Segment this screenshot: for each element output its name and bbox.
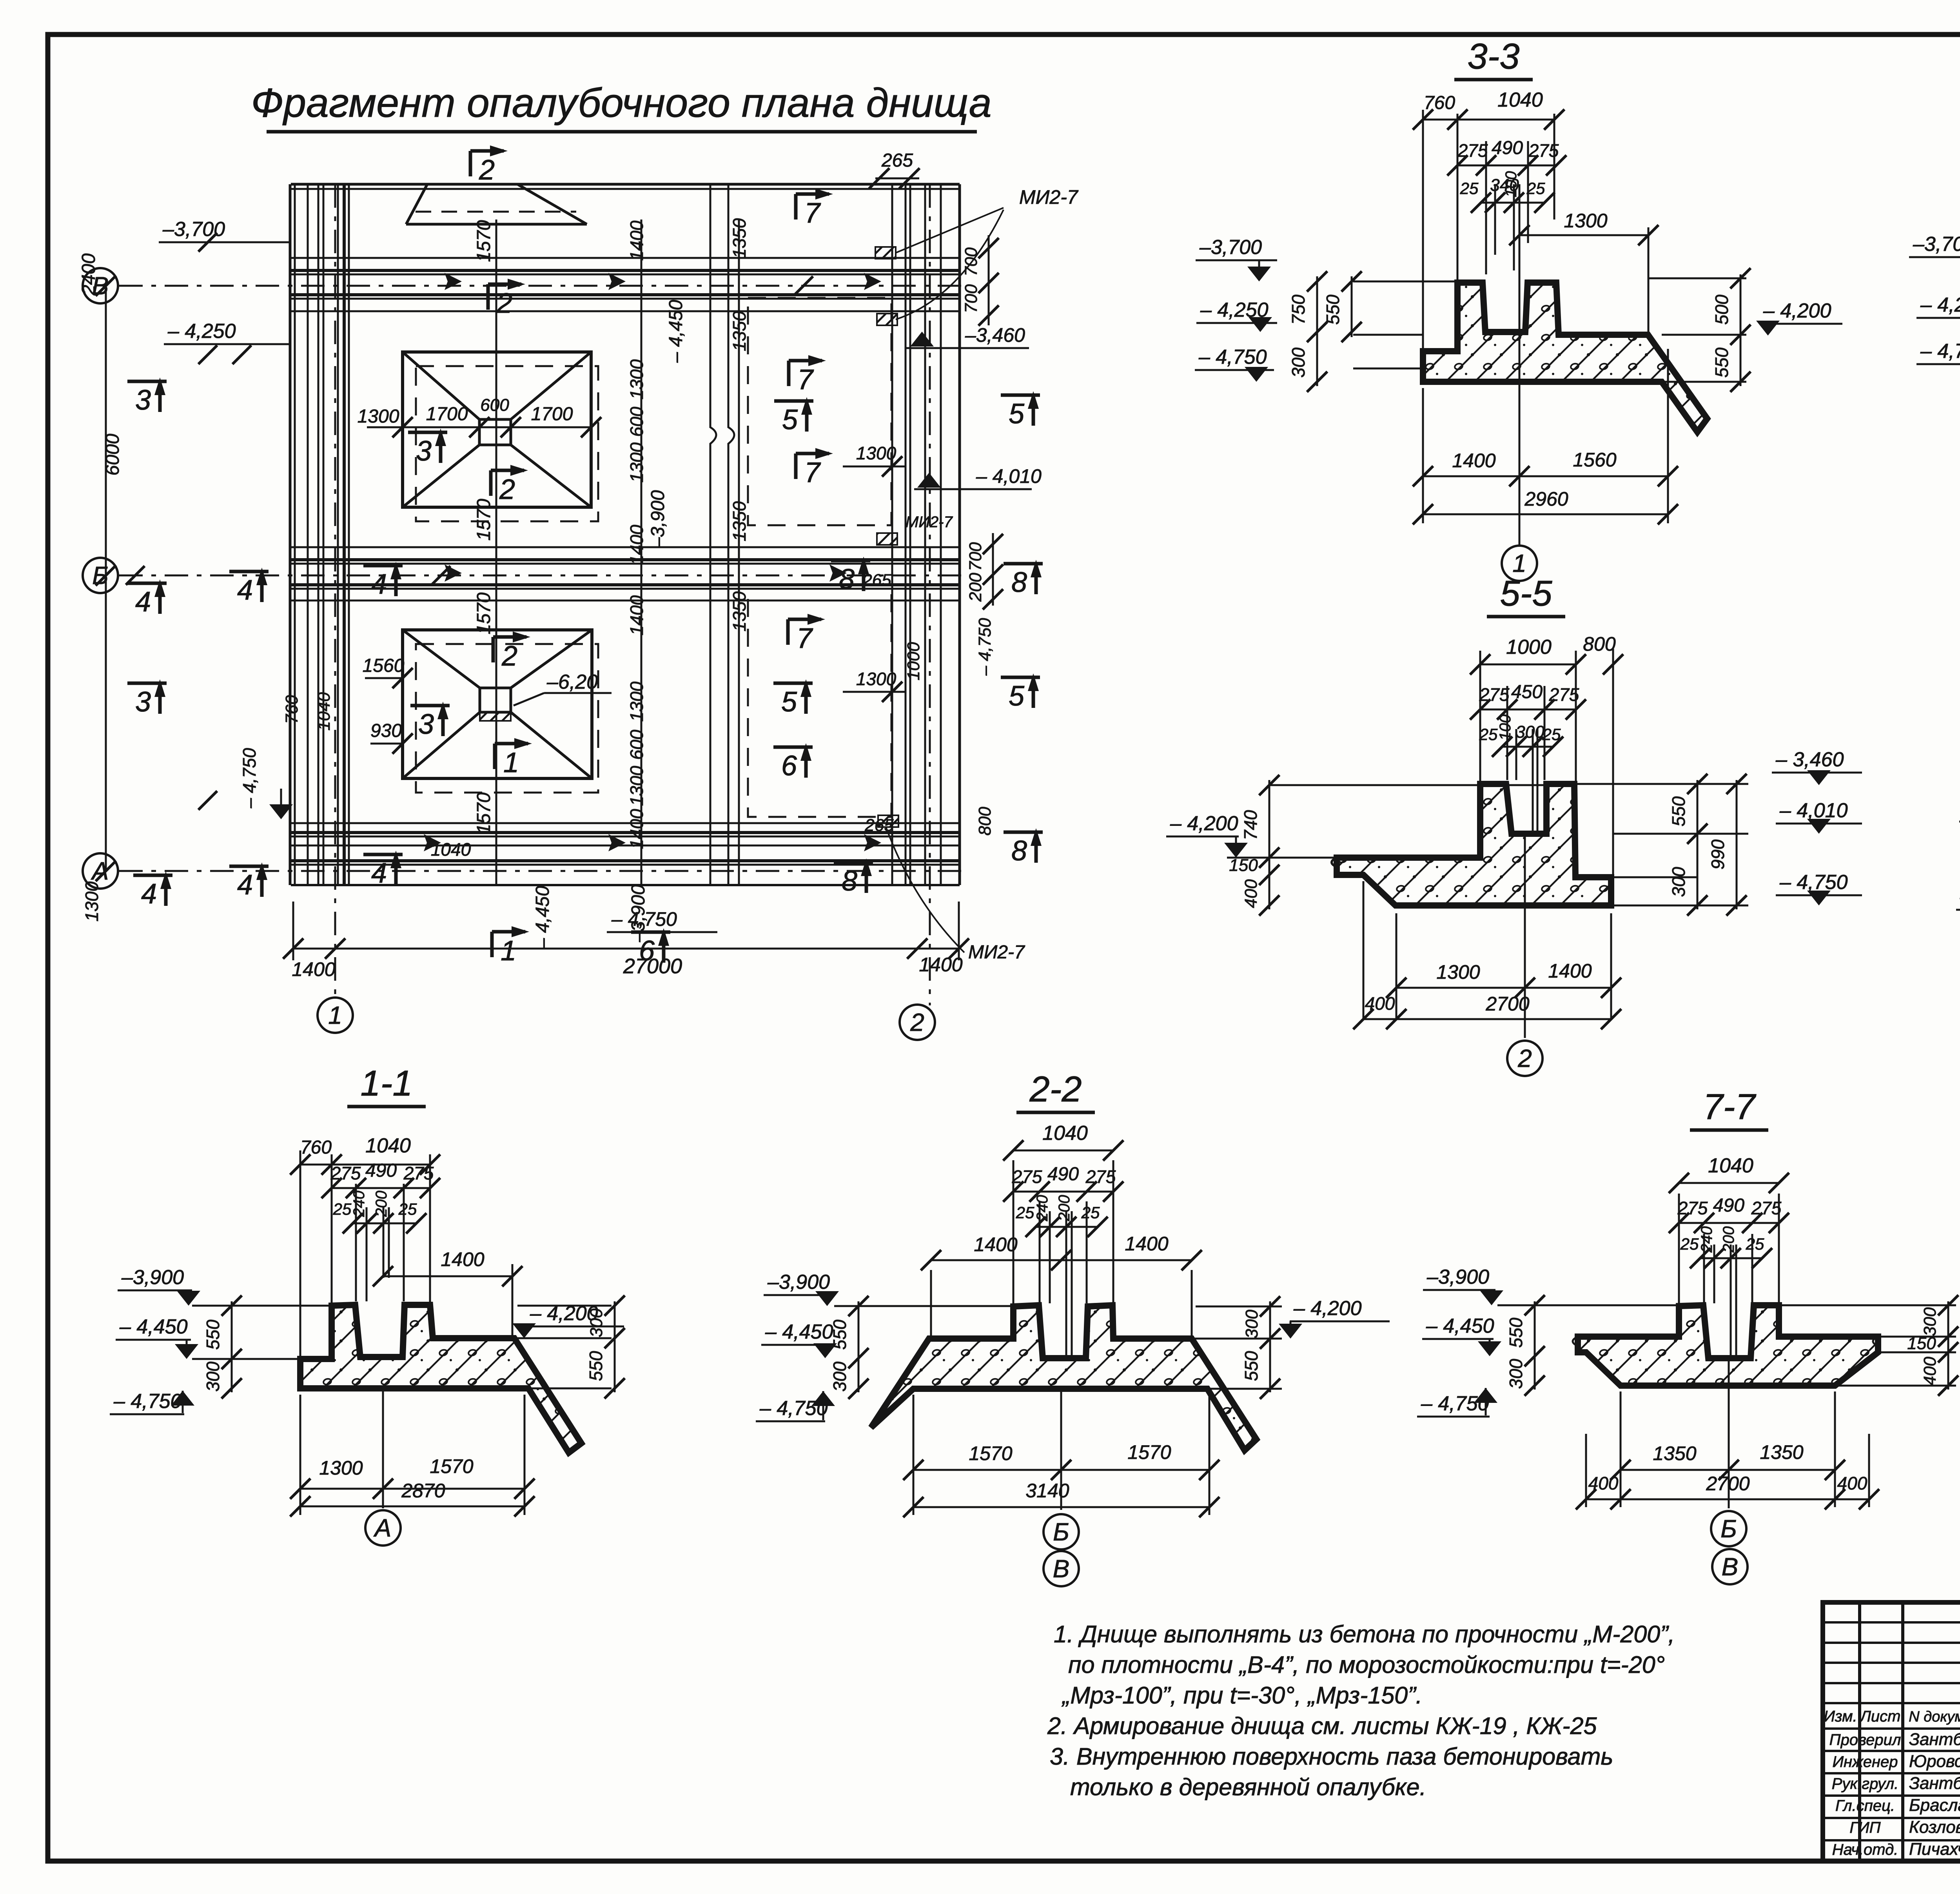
svg-text:–6,20: –6,20 xyxy=(546,671,598,693)
svg-text:1560: 1560 xyxy=(363,655,405,676)
svg-text:Пичахчи: Пичахчи xyxy=(1909,1840,1960,1859)
svg-text:– 4,250: – 4,250 xyxy=(167,320,236,343)
svg-text:– 4,200: – 4,200 xyxy=(1170,812,1238,835)
svg-text:5: 5 xyxy=(782,404,798,435)
svg-text:только в деревянной опалубке: только в деревянной опалубке. xyxy=(1070,1774,1426,1800)
svg-text:2: 2 xyxy=(499,474,515,505)
svg-text:3140: 3140 xyxy=(1025,1480,1069,1502)
section 1-1 axis circle A xyxy=(365,1510,401,1546)
section 1-1 bottom dims xyxy=(299,1395,301,1515)
svg-text:1300: 1300 xyxy=(626,681,647,722)
svg-text:Б: Б xyxy=(1720,1515,1737,1543)
section 2-2 dims 1400+1400 xyxy=(930,1270,932,1337)
svg-text:– 4,450: – 4,450 xyxy=(666,300,686,363)
section 7-7 axis circles xyxy=(1711,1511,1746,1546)
svg-text:550: 550 xyxy=(1711,347,1732,377)
svg-text:400: 400 xyxy=(1920,1357,1940,1386)
svg-text:600: 600 xyxy=(626,729,647,760)
plan: bottom flags xyxy=(490,932,494,957)
svg-text:2700: 2700 xyxy=(1485,993,1529,1015)
svg-text:400: 400 xyxy=(1241,879,1261,908)
svg-text:1350: 1350 xyxy=(1653,1442,1696,1464)
svg-text:700: 700 xyxy=(962,284,981,313)
svg-text:2: 2 xyxy=(910,1008,924,1036)
svg-text:4: 4 xyxy=(237,575,253,606)
plan: row B axis xyxy=(119,285,964,287)
svg-text:1400: 1400 xyxy=(1125,1233,1168,1255)
section 3-3 right dims xyxy=(1648,278,1746,279)
svg-text:25: 25 xyxy=(333,1200,352,1218)
svg-text:Зантберг: Зантберг xyxy=(1909,1774,1960,1793)
svg-text:1570: 1570 xyxy=(430,1455,473,1477)
section 7-7 bottom dims xyxy=(1620,1391,1622,1507)
svg-text:25: 25 xyxy=(1081,1203,1100,1222)
section 7-7 top dims xyxy=(1678,1194,1680,1304)
svg-text:27000: 27000 xyxy=(623,954,682,978)
section 1-1 concrete profile xyxy=(300,1305,581,1453)
section 2-2 title xyxy=(1016,1069,1095,1112)
svg-text:25: 25 xyxy=(1016,1203,1034,1222)
svg-text:1400: 1400 xyxy=(626,220,647,261)
svg-text:– 4,750: – 4,750 xyxy=(1920,340,1960,363)
section 1-1 left dim column xyxy=(231,1301,233,1392)
svg-text:3. Внутреннюю поверхность паза: 3. Внутреннюю поверхность паза бетониров… xyxy=(1050,1743,1613,1770)
plan: bottom dimension line xyxy=(293,948,959,950)
svg-text:550: 550 xyxy=(1668,796,1689,826)
svg-text:1: 1 xyxy=(503,747,519,778)
svg-text:150: 150 xyxy=(1229,856,1258,875)
section 5-5 axis circle 2 xyxy=(1507,1041,1543,1076)
svg-text:МИ2-7: МИ2-7 xyxy=(1019,186,1079,208)
plan view group xyxy=(78,145,1079,1040)
svg-text:Браславский: Браславский xyxy=(1909,1796,1960,1815)
svg-text:7: 7 xyxy=(804,198,821,229)
section 2-2 left dim column xyxy=(858,1301,860,1392)
svg-text:1400: 1400 xyxy=(626,809,647,849)
svg-text:7: 7 xyxy=(797,623,813,654)
svg-text:1. Днище выполнять из бетона п: 1. Днище выполнять из бетона по прочност… xyxy=(1054,1621,1675,1647)
svg-text:1300: 1300 xyxy=(626,766,647,806)
svg-text:300: 300 xyxy=(203,1361,223,1391)
svg-text:1040: 1040 xyxy=(365,1134,411,1157)
plan: axis 1 line xyxy=(334,184,336,1001)
svg-text:25: 25 xyxy=(398,1200,417,1218)
plan: row Б wall band xyxy=(291,546,960,548)
plan view: outer walls xyxy=(289,184,292,885)
section 1-1 top dims xyxy=(299,1150,301,1357)
svg-text:1000: 1000 xyxy=(1506,636,1552,659)
section 7-7 concrete profile xyxy=(1578,1305,1878,1386)
svg-text:275: 275 xyxy=(1549,684,1579,705)
plan: right section flags xyxy=(1001,394,1040,397)
svg-text:275: 275 xyxy=(1479,684,1510,705)
svg-text:930: 930 xyxy=(370,720,402,741)
plan: axis 2 line xyxy=(929,184,931,1005)
svg-text:„Мрз-100”, при t=-30°, „Мрз-15: „Мрз-100”, при t=-30°, „Мрз-150”. xyxy=(1061,1682,1423,1709)
svg-text:300: 300 xyxy=(1920,1307,1940,1336)
section 3-3 dim 1300 xyxy=(1648,227,1650,335)
svg-text:2-2: 2-2 xyxy=(1029,1069,1082,1109)
svg-text:1570: 1570 xyxy=(969,1442,1012,1464)
svg-text:300: 300 xyxy=(829,1361,850,1391)
svg-text:Изм.: Изм. xyxy=(1824,1708,1857,1725)
plan: row Б axis xyxy=(119,575,964,577)
svg-text:1: 1 xyxy=(501,935,516,967)
svg-text:25: 25 xyxy=(1542,725,1561,744)
svg-text:1570: 1570 xyxy=(474,792,494,834)
svg-text:990: 990 xyxy=(1708,839,1728,869)
svg-text:265: 265 xyxy=(864,816,894,835)
svg-text:1560: 1560 xyxy=(1573,449,1616,471)
svg-text:600: 600 xyxy=(626,406,647,437)
svg-text:– 4,450: – 4,450 xyxy=(765,1321,833,1343)
svg-text:25: 25 xyxy=(1746,1235,1764,1253)
svg-text:760: 760 xyxy=(282,695,301,724)
section 5-5 concrete profile xyxy=(1337,784,1611,905)
svg-text:490: 490 xyxy=(1047,1164,1079,1185)
plan: top partial hopper xyxy=(406,184,427,224)
svg-text:2870: 2870 xyxy=(401,1480,445,1502)
svg-text:– 4,250: – 4,250 xyxy=(1920,294,1960,316)
svg-text:700: 700 xyxy=(966,542,985,571)
svg-text:1040: 1040 xyxy=(1497,89,1543,111)
title block outer xyxy=(1823,1602,1960,1861)
svg-text:А: А xyxy=(373,1514,392,1542)
section 7-7 right dims xyxy=(1782,1304,1956,1306)
svg-text:– 4,010: – 4,010 xyxy=(976,465,1042,487)
svg-text:5: 5 xyxy=(1009,680,1025,712)
section 5-5 right dims xyxy=(1577,783,1748,785)
plan: section flags left edge xyxy=(127,380,167,383)
section 1-1 title xyxy=(347,1063,426,1107)
section 3-3 axis circle 1 xyxy=(1502,546,1537,581)
section 2-2 right dims xyxy=(1115,1338,1282,1340)
svg-text:100: 100 xyxy=(1497,715,1514,741)
svg-text:4: 4 xyxy=(237,869,253,901)
svg-text:7-7: 7-7 xyxy=(1703,1087,1757,1127)
svg-text:1400: 1400 xyxy=(441,1248,484,1270)
svg-text:550: 550 xyxy=(1241,1351,1261,1381)
svg-text:– 4,200: – 4,200 xyxy=(530,1302,598,1325)
svg-text:275: 275 xyxy=(1528,140,1559,161)
svg-text:2400: 2400 xyxy=(78,253,99,296)
svg-text:3: 3 xyxy=(135,686,151,718)
svg-text:– 3,460: – 3,460 xyxy=(1775,748,1844,771)
svg-text:по плотности „В-4”, по морозос: по плотности „В-4”, по морозостойкости:п… xyxy=(1068,1651,1665,1678)
section 5-5 top dims xyxy=(1479,651,1481,782)
svg-text:200: 200 xyxy=(966,573,985,602)
plan: upper pit xyxy=(403,352,591,507)
plan: row A axis xyxy=(119,870,964,872)
svg-text:25: 25 xyxy=(1526,179,1545,198)
svg-text:1400: 1400 xyxy=(626,524,647,565)
plan: vertical break lines xyxy=(710,184,716,885)
svg-text:1040: 1040 xyxy=(1708,1154,1753,1177)
svg-text:265: 265 xyxy=(862,571,891,590)
svg-text:Нач.отд.: Нач.отд. xyxy=(1832,1841,1898,1858)
svg-text:– 4,450: – 4,450 xyxy=(532,886,553,949)
svg-text:Инженер: Инженер xyxy=(1833,1753,1898,1771)
svg-text:В: В xyxy=(1053,1555,1070,1583)
svg-text:–3,700: –3,700 xyxy=(1199,236,1262,259)
svg-text:8: 8 xyxy=(1011,567,1027,598)
svg-text:300: 300 xyxy=(1242,1310,1261,1339)
section 2-2 top dims xyxy=(1013,1160,1014,1304)
svg-text:600: 600 xyxy=(480,395,509,415)
svg-text:– 4,200: – 4,200 xyxy=(1763,299,1831,322)
svg-text:6: 6 xyxy=(781,750,797,782)
svg-text:3-3: 3-3 xyxy=(1468,36,1520,76)
section 5-5 left dim column xyxy=(1269,780,1270,909)
svg-text:275: 275 xyxy=(1085,1167,1116,1187)
section 3-3 bottom dims xyxy=(1422,388,1424,523)
svg-text:275: 275 xyxy=(1751,1198,1782,1218)
svg-text:1570: 1570 xyxy=(474,220,494,262)
svg-text:Б: Б xyxy=(1053,1518,1069,1546)
svg-text:800: 800 xyxy=(975,807,995,836)
svg-text:Козловская: Козловская xyxy=(1909,1818,1960,1837)
plan: row A wall band xyxy=(291,822,960,824)
svg-text:N документа: N документа xyxy=(1909,1709,1960,1725)
svg-text:1000: 1000 xyxy=(904,642,923,680)
svg-text:275: 275 xyxy=(330,1163,361,1183)
svg-text:–3,900: –3,900 xyxy=(121,1266,184,1289)
svg-text:1400: 1400 xyxy=(292,958,335,980)
svg-text:1300: 1300 xyxy=(626,442,647,483)
svg-text:МИ2-7: МИ2-7 xyxy=(968,942,1025,963)
svg-text:– 4,750: – 4,750 xyxy=(611,908,677,930)
svg-text:1700: 1700 xyxy=(531,404,573,425)
svg-text:1400: 1400 xyxy=(1452,450,1495,472)
svg-text:200: 200 xyxy=(373,1191,390,1217)
svg-text:Юровский: Юровский xyxy=(1909,1752,1960,1771)
title block left table rows xyxy=(1823,1621,1960,1624)
svg-text:275: 275 xyxy=(1457,140,1488,161)
svg-text:1700: 1700 xyxy=(426,404,468,425)
svg-text:550: 550 xyxy=(829,1319,850,1350)
svg-text:7: 7 xyxy=(797,364,814,395)
svg-text:275: 275 xyxy=(403,1163,434,1183)
svg-text:400: 400 xyxy=(1837,1473,1867,1493)
svg-text:1300: 1300 xyxy=(1436,961,1480,983)
svg-text:200: 200 xyxy=(1056,1195,1073,1222)
svg-text:700: 700 xyxy=(962,247,981,276)
svg-text:5: 5 xyxy=(781,686,797,718)
svg-text:275: 275 xyxy=(1677,1198,1708,1218)
svg-text:1570: 1570 xyxy=(474,592,494,634)
svg-text:400: 400 xyxy=(1588,1473,1619,1493)
svg-text:550: 550 xyxy=(1323,294,1343,325)
svg-text:2. Армирование днища см. листы: 2. Армирование днища см. листы КЖ-19 , К… xyxy=(1047,1713,1597,1739)
svg-text:500: 500 xyxy=(1711,294,1732,325)
section 1-1 dim 1400 xyxy=(512,1264,514,1337)
svg-text:25: 25 xyxy=(1680,1235,1699,1253)
svg-text:740: 740 xyxy=(1240,810,1261,840)
svg-text:4: 4 xyxy=(141,878,157,910)
svg-text:1400: 1400 xyxy=(974,1234,1017,1255)
section 7-7 left dim column xyxy=(1534,1301,1536,1390)
svg-text:Гл.спец.: Гл.спец. xyxy=(1835,1797,1895,1814)
svg-text:1300: 1300 xyxy=(856,669,897,689)
section 2-2 axis circles xyxy=(1044,1514,1079,1549)
svg-text:300: 300 xyxy=(1515,722,1544,742)
section 3-3 title xyxy=(1454,36,1533,80)
svg-text:1300: 1300 xyxy=(82,881,102,922)
section 5-5 title xyxy=(1487,573,1565,617)
svg-text:450: 450 xyxy=(1511,682,1543,702)
svg-text:Лист: Лист xyxy=(1859,1708,1901,1725)
svg-text:ГИП: ГИП xyxy=(1849,1819,1881,1836)
svg-text:– 4,450: – 4,450 xyxy=(1426,1315,1494,1337)
section 3-3 left reference lines xyxy=(1353,281,1457,283)
svg-text:8: 8 xyxy=(842,865,857,897)
svg-text:200: 200 xyxy=(1720,1226,1737,1253)
svg-text:1040: 1040 xyxy=(1042,1122,1088,1145)
svg-text:1300: 1300 xyxy=(319,1457,363,1479)
svg-text:В: В xyxy=(1722,1553,1739,1581)
svg-text:490: 490 xyxy=(365,1160,397,1181)
svg-text:490: 490 xyxy=(1492,138,1523,158)
svg-text:8: 8 xyxy=(1011,835,1027,867)
svg-text:–3,900: –3,900 xyxy=(1426,1266,1489,1288)
svg-text:240: 240 xyxy=(350,1191,368,1217)
svg-text:3: 3 xyxy=(416,435,432,467)
svg-text:275: 275 xyxy=(1012,1167,1042,1187)
drawing title xyxy=(251,80,991,132)
svg-text:1300: 1300 xyxy=(856,443,897,463)
svg-text:1040: 1040 xyxy=(314,692,334,731)
section 1-1 right dims xyxy=(435,1337,612,1339)
svg-text:1400: 1400 xyxy=(919,954,962,976)
svg-text:1-1: 1-1 xyxy=(361,1063,413,1103)
plan: row B wall band xyxy=(291,257,960,259)
section 2-2 concrete profile xyxy=(871,1305,1256,1450)
svg-text:25: 25 xyxy=(1460,179,1479,198)
svg-text:240: 240 xyxy=(1698,1226,1715,1253)
svg-text:550: 550 xyxy=(1506,1317,1526,1348)
svg-text:150: 150 xyxy=(1907,1334,1936,1353)
svg-text:– 4,750: – 4,750 xyxy=(1779,871,1848,894)
svg-text:1400: 1400 xyxy=(1548,960,1592,982)
svg-text:Фрагмент опалубочного плана дн: Фрагмент опалубочного плана днища xyxy=(251,80,991,126)
svg-text:МИ2-7: МИ2-7 xyxy=(906,513,953,531)
section 5-5 bottom dims xyxy=(1363,881,1365,1019)
section 3-3 top dimensions xyxy=(1422,110,1424,382)
svg-text:5: 5 xyxy=(1009,398,1025,430)
svg-text:Проверил: Проверил xyxy=(1829,1731,1901,1749)
svg-text:1570: 1570 xyxy=(474,499,494,541)
svg-text:5-5: 5-5 xyxy=(1500,573,1553,613)
svg-text:–3,900: –3,900 xyxy=(648,490,668,548)
svg-text:Зантберг: Зантберг xyxy=(1909,1730,1960,1749)
svg-text:– 4,200: – 4,200 xyxy=(1293,1297,1362,1320)
svg-text:240: 240 xyxy=(1034,1195,1051,1222)
section 7-7 title xyxy=(1690,1087,1768,1130)
svg-text:760: 760 xyxy=(1424,93,1455,113)
title block left table verticals xyxy=(1858,1602,1861,1861)
svg-text:2: 2 xyxy=(501,640,517,672)
svg-text:2: 2 xyxy=(496,288,512,319)
svg-text:1: 1 xyxy=(328,1001,342,1029)
svg-text:760: 760 xyxy=(300,1137,332,1158)
svg-text:300: 300 xyxy=(1288,347,1308,377)
section 3-3 concrete profile xyxy=(1423,283,1707,432)
plan: axis circles bottom xyxy=(318,998,353,1033)
svg-text:– 4,750: – 4,750 xyxy=(975,618,995,676)
svg-text:265: 265 xyxy=(881,150,913,171)
svg-text:4: 4 xyxy=(371,858,387,889)
svg-text:1350: 1350 xyxy=(1760,1441,1803,1463)
svg-text:– 4,450: – 4,450 xyxy=(119,1315,188,1338)
svg-text:– 4,750: – 4,750 xyxy=(113,1390,182,1413)
svg-text:4: 4 xyxy=(135,586,151,618)
svg-text:100: 100 xyxy=(1503,171,1520,198)
svg-text:2: 2 xyxy=(479,154,495,186)
svg-text:– 4,750: – 4,750 xyxy=(1198,346,1267,368)
svg-text:3: 3 xyxy=(135,385,151,416)
svg-text:– 4,750: – 4,750 xyxy=(239,748,260,809)
section 2-2 bottom dims xyxy=(913,1395,915,1515)
svg-text:300: 300 xyxy=(1668,867,1689,897)
svg-text:300: 300 xyxy=(1506,1359,1526,1389)
svg-text:1300: 1300 xyxy=(1564,210,1607,232)
plan: MI2-7 embeds xyxy=(875,247,896,259)
plan: right chamber dashed rects xyxy=(748,298,891,525)
svg-text:25: 25 xyxy=(1479,725,1498,744)
svg-text:–3,900: –3,900 xyxy=(767,1271,830,1294)
svg-text:800: 800 xyxy=(1583,633,1616,655)
svg-text:–3,700: –3,700 xyxy=(1913,233,1960,256)
svg-text:750: 750 xyxy=(1288,294,1308,325)
plan: filled junction arrows xyxy=(445,273,462,290)
svg-text:400: 400 xyxy=(1365,993,1395,1014)
svg-text:– 4,750: – 4,750 xyxy=(1421,1392,1489,1415)
svg-text:–3,460: –3,460 xyxy=(965,324,1025,346)
svg-text:3: 3 xyxy=(418,709,434,740)
svg-text:7: 7 xyxy=(804,457,821,488)
svg-text:550: 550 xyxy=(203,1319,223,1350)
section 3-3 left dim columns xyxy=(1316,276,1318,386)
svg-text:490: 490 xyxy=(1713,1195,1744,1216)
svg-text:8: 8 xyxy=(839,564,855,595)
svg-text:2: 2 xyxy=(1517,1044,1532,1072)
plan: lower pit xyxy=(403,630,592,778)
svg-text:Рук.грул.: Рук.грул. xyxy=(1832,1775,1899,1792)
svg-text:–3,700: –3,700 xyxy=(162,218,225,241)
plan: right chamber flags xyxy=(794,194,798,220)
svg-text:1300: 1300 xyxy=(626,359,647,399)
svg-text:– 4,010: – 4,010 xyxy=(1779,799,1848,822)
svg-text:550: 550 xyxy=(586,1351,606,1381)
svg-text:1300: 1300 xyxy=(358,406,399,427)
svg-text:2960: 2960 xyxy=(1524,488,1568,510)
svg-text:4: 4 xyxy=(371,569,387,600)
svg-text:1570: 1570 xyxy=(1127,1441,1171,1463)
svg-text:1400: 1400 xyxy=(626,595,647,635)
